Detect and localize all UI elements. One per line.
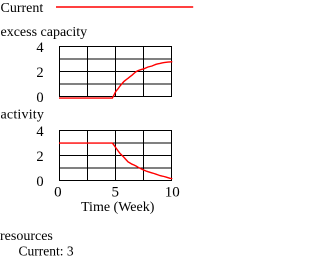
svg-text:Current: Current (1, 1, 44, 16)
svg-text:excess capacity: excess capacity (1, 25, 88, 40)
svg-text:2: 2 (36, 65, 43, 81)
svg-text:activity: activity (1, 108, 45, 123)
svg-text:10: 10 (165, 184, 180, 200)
svg-text:5: 5 (112, 184, 120, 200)
svg-text:Current: 3: Current: 3 (19, 244, 74, 259)
svg-text:0: 0 (36, 174, 43, 190)
svg-text:2: 2 (36, 149, 43, 165)
svg-text:4: 4 (36, 40, 44, 56)
svg-text:resources: resources (0, 229, 53, 244)
svg-text:Time (Week): Time (Week) (81, 200, 155, 215)
svg-text:0: 0 (36, 90, 43, 106)
svg-text:0: 0 (54, 184, 62, 200)
svg-text:4: 4 (36, 124, 44, 140)
